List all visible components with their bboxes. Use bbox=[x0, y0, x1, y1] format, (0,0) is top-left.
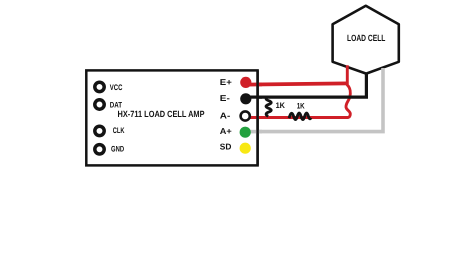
wire stub red E+ bbox=[247, 83, 263, 87]
svg-text:1K: 1K bbox=[276, 101, 286, 110]
pin GND bbox=[95, 145, 104, 154]
pin E+ bbox=[240, 77, 251, 88]
wire black E- to load cell bbox=[246, 74, 366, 98]
wire stub red A- bbox=[249, 116, 262, 119]
svg-text:A+: A+ bbox=[220, 126, 232, 136]
wire stub black E- bbox=[246, 95, 262, 98]
svg-text:GND: GND bbox=[111, 145, 124, 154]
svg-text:VCC: VCC bbox=[110, 83, 123, 92]
pin SD bbox=[240, 143, 251, 154]
resistor R1 vertical 1K bbox=[266, 97, 271, 117]
wire red E+ horizontal bbox=[247, 83, 349, 84]
pin CLK bbox=[95, 126, 104, 135]
svg-text:E+: E+ bbox=[220, 77, 232, 87]
wire red vertical to load cell (wavy) bbox=[346, 65, 350, 117]
svg-text:A-: A- bbox=[220, 110, 231, 120]
svg-text:E-: E- bbox=[220, 93, 230, 103]
pin A- bbox=[241, 111, 250, 120]
svg-text:LOAD CELL: LOAD CELL bbox=[347, 33, 386, 43]
HX-711 box bbox=[86, 70, 257, 165]
wire red A- horizontal bbox=[249, 116, 348, 119]
svg-text:CLK: CLK bbox=[113, 126, 125, 135]
pin E- bbox=[240, 93, 251, 104]
svg-text:HX-711 LOAD CELL AMP: HX-711 LOAD CELL AMP bbox=[118, 109, 205, 119]
svg-text:1K: 1K bbox=[297, 102, 305, 111]
pin VCC bbox=[95, 82, 104, 91]
wire stub gray A+ bbox=[246, 130, 262, 134]
pin DAT bbox=[95, 100, 104, 109]
load cell hexagon bbox=[333, 6, 399, 74]
box right edge over wires bbox=[256, 70, 259, 165]
pin A+ bbox=[240, 127, 251, 138]
svg-text:SD: SD bbox=[220, 142, 232, 152]
resistor R2 horizontal 1K bbox=[289, 113, 311, 119]
wire gray A+ to load cell bbox=[246, 68, 383, 132]
